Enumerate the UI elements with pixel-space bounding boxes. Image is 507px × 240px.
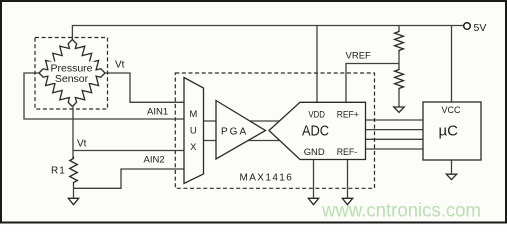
label Pressure Sensor	[49, 62, 95, 84]
wire: bridge right vertex Vt to MUX	[105, 73, 184, 102]
wire: ADC data line 4 to uC	[366, 148, 424, 150]
ground ADC REF-	[342, 198, 352, 204]
resistor R1	[70, 157, 78, 185]
ground uC	[446, 174, 456, 179]
wire: MUX to PGA to ADC lower	[204, 140, 301, 142]
svg-text:M: M	[189, 109, 197, 120]
svg-text:X: X	[190, 142, 197, 153]
wire: ADC REF- pin to ground	[347, 160, 349, 199]
svg-text:U: U	[190, 125, 197, 136]
wire: divider middle segment	[398, 53, 400, 68]
svg-text:Vt: Vt	[115, 60, 125, 71]
ADC block	[269, 102, 366, 159]
terminal 5V	[464, 23, 471, 30]
svg-text:REF+: REF+	[337, 109, 359, 120]
wire: Vt line to MUX	[73, 150, 184, 152]
wire: divider to ground	[398, 91, 400, 108]
wire: MUX to PGA to ADC upper	[204, 120, 301, 122]
dashed box MAX1416	[175, 73, 374, 188]
svg-text:GND: GND	[304, 147, 325, 158]
multiplexer MUX	[184, 78, 204, 184]
svg-text:MAX1416: MAX1416	[240, 173, 294, 184]
svg-text:Sensor: Sensor	[55, 73, 89, 85]
ground ADC GND	[308, 198, 318, 204]
svg-text:5V: 5V	[474, 22, 487, 34]
svg-text:VREF: VREF	[346, 51, 372, 62]
wire: VCC drop from rail to uC	[451, 26, 453, 103]
wire: R1 bottom node	[73, 185, 75, 199]
svg-text:AIN2: AIN2	[144, 154, 165, 165]
pressure sensor bridge	[39, 40, 105, 107]
svg-text:PGA: PGA	[221, 126, 248, 137]
wire: bridge left vertex to AIN1	[24, 73, 184, 119]
wire: uC to ground	[451, 160, 453, 174]
op-amp PGA	[216, 101, 266, 160]
wire: ADC data line 2 to uC	[366, 129, 424, 131]
wire: VDD drop from rail to ADC	[316, 26, 318, 103]
wire: VREF line to REF+ pin	[346, 64, 399, 103]
ground R1	[68, 198, 78, 204]
wire: ADC data line 3 to uC	[366, 138, 424, 140]
svg-text:Vt: Vt	[77, 138, 87, 149]
dashed box pressure sensor	[35, 38, 108, 110]
wire: AIN2 route from R1 bottom to MUX	[74, 169, 185, 188]
wire: ADC GND pin to ground	[313, 160, 315, 199]
svg-text:VCC: VCC	[442, 105, 462, 115]
svg-text:www.cntronics.com: www.cntronics.com	[321, 201, 481, 222]
svg-text:µC: µC	[439, 122, 459, 139]
svg-text:R1: R1	[51, 166, 66, 177]
ground divider	[394, 107, 404, 112]
uC box	[423, 102, 481, 160]
svg-text:ADC: ADC	[302, 122, 329, 139]
resistor divider lower	[395, 68, 404, 91]
svg-text:REF-: REF-	[337, 147, 358, 158]
svg-text:AIN1: AIN1	[147, 106, 168, 117]
wire: divider top segment	[398, 26, 400, 30]
svg-text:VDD: VDD	[308, 109, 325, 120]
resistor divider upper	[395, 30, 404, 53]
wire: bridge bottom to R1 top	[72, 107, 74, 159]
wire: ADC data line 1 to uC	[366, 119, 424, 121]
wire: 5V top rail	[72, 26, 463, 40]
